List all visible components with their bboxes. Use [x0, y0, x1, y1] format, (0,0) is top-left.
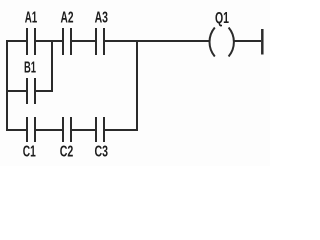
svg-text:C3: C3 [95, 144, 109, 161]
svg-text:Q1: Q1 [215, 10, 229, 27]
svg-text:A2: A2 [61, 10, 74, 27]
svg-text:C1: C1 [23, 144, 36, 161]
svg-text:A3: A3 [95, 10, 108, 27]
svg-text:B1: B1 [24, 59, 36, 76]
svg-text:A1: A1 [25, 10, 38, 27]
svg-text:C2: C2 [60, 144, 74, 161]
